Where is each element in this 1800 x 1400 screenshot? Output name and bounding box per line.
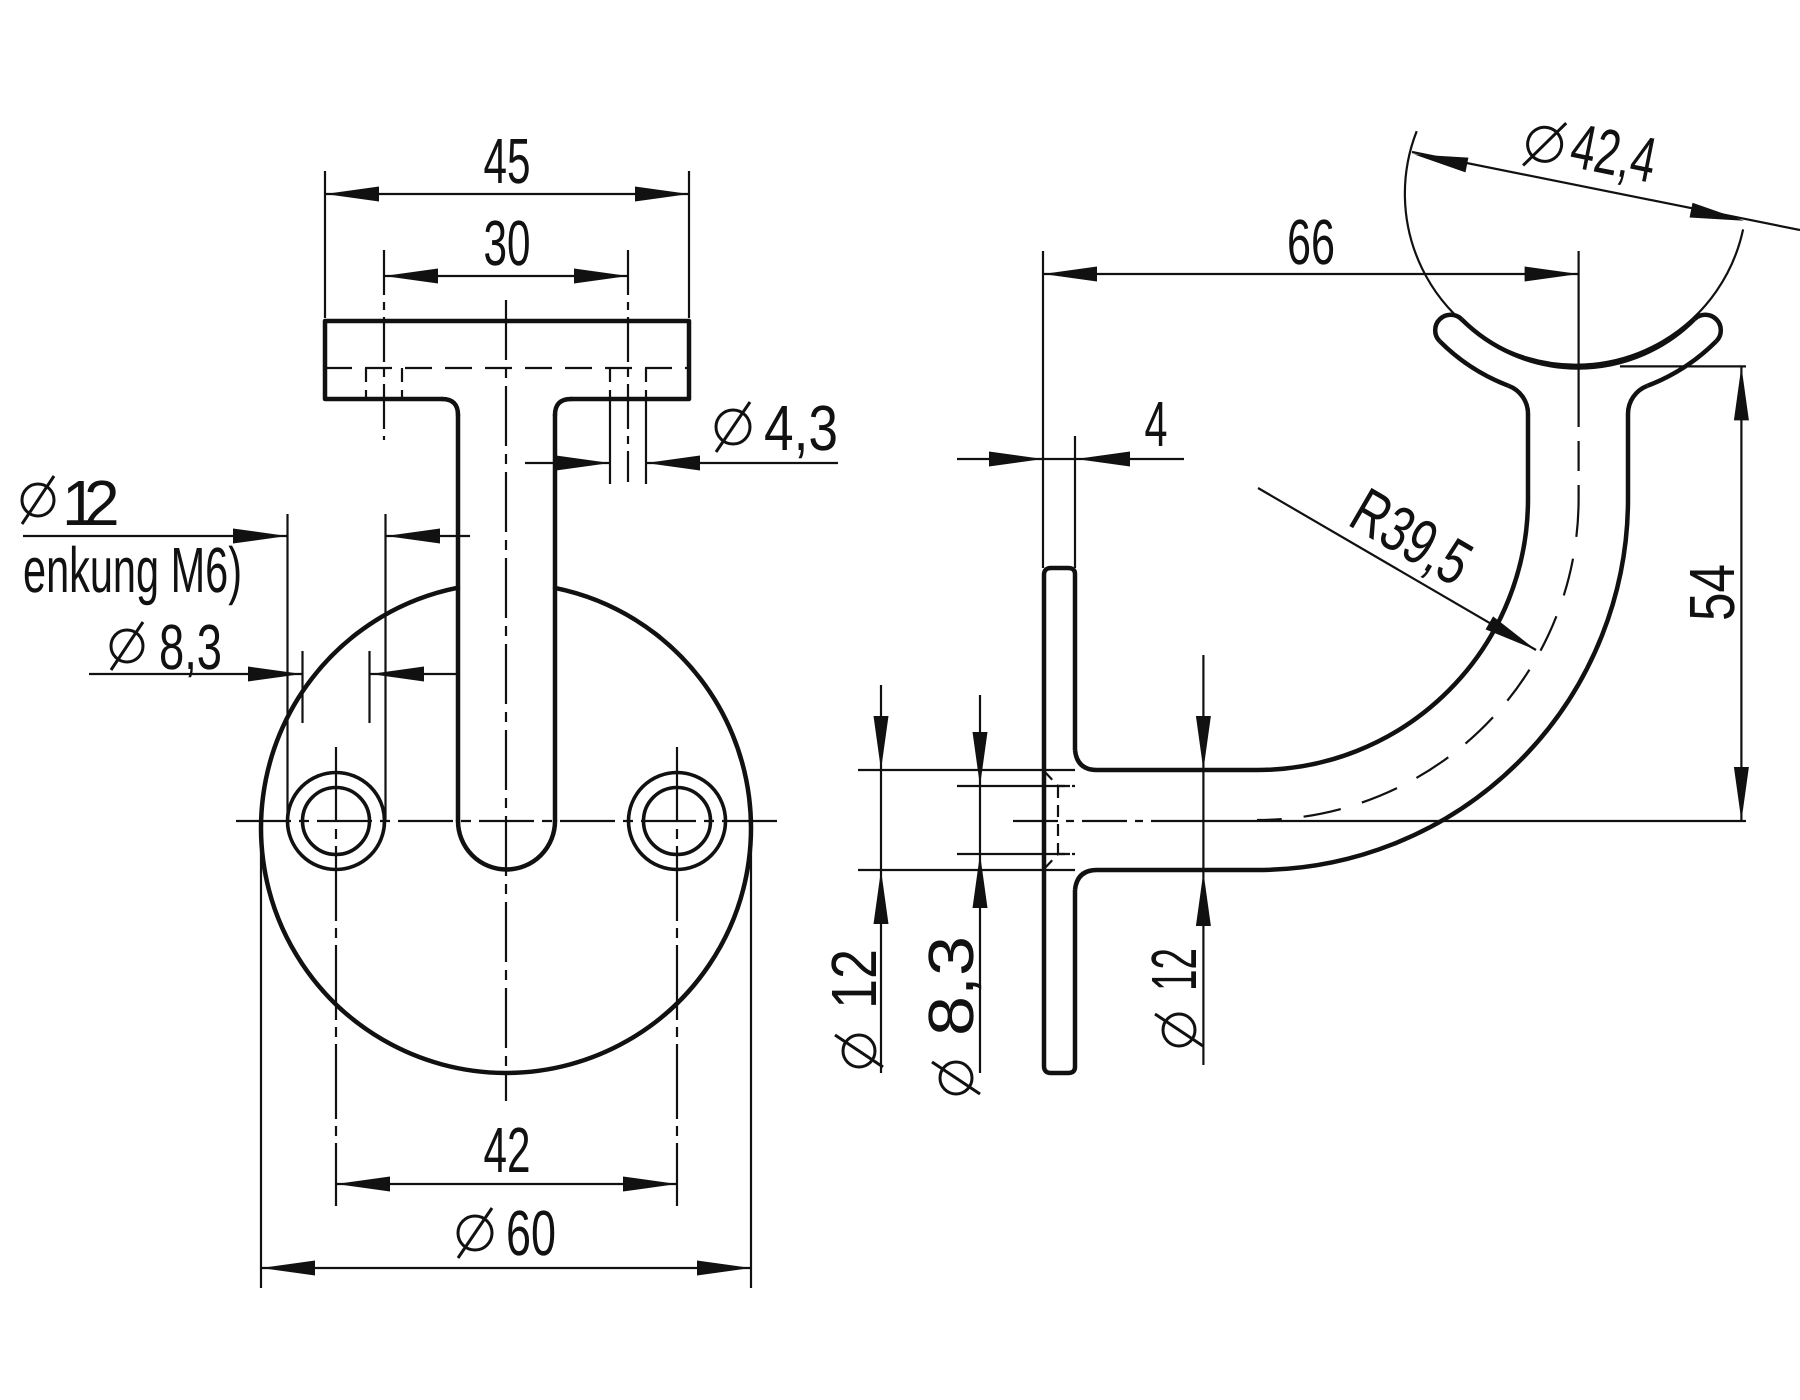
svg-text:12: 12	[1138, 948, 1210, 991]
dimension 30	[384, 275, 628, 277]
centerline hole right top	[627, 250, 629, 482]
svg-text:42: 42	[484, 1114, 531, 1186]
label R39,5 rotated	[1339, 474, 1484, 600]
wall plate side	[1044, 568, 1075, 1073]
svg-text:30: 30	[484, 207, 531, 279]
svg-text:2: 2	[84, 467, 120, 539]
bracket arm and bend	[1075, 386, 1647, 890]
label Ø60	[458, 1197, 556, 1269]
svg-text:8,3: 8,3	[159, 611, 222, 683]
label Ø4,3	[716, 392, 838, 464]
left hole outer Ø12	[288, 773, 385, 870]
svg-text:8,3: 8,3	[915, 936, 987, 1036]
centerlines side view	[1013, 397, 1579, 821]
svg-text:12: 12	[818, 949, 890, 1009]
dimension Ø4,3	[525, 399, 838, 484]
right hole outer Ø12	[629, 773, 726, 870]
label Ø12	[22, 467, 120, 539]
right hole inner Ø8.3	[644, 788, 711, 855]
svg-text:54: 54	[1676, 564, 1748, 621]
svg-text:enkung M6): enkung M6)	[23, 534, 242, 606]
dimension Ø12 plate countersink	[858, 685, 1075, 1073]
dimension Ø8,3 plate hole	[957, 695, 1075, 1073]
dimension Ø60	[261, 824, 751, 1288]
label Ø8,3 plate rotated	[915, 936, 987, 1094]
hidden hole edges left	[366, 368, 402, 399]
svg-text:4,3: 4,3	[764, 392, 838, 464]
centerline right hole vertical	[676, 747, 678, 1206]
dimension 45	[325, 171, 689, 318]
tube circle Ø42,4 (thin arc)	[1405, 131, 1743, 365]
cup saddle	[1435, 315, 1721, 386]
dimension R39,5 leader	[1258, 488, 1536, 650]
hidden countersink in plate	[1044, 771, 1075, 869]
svg-text:60: 60	[506, 1197, 556, 1269]
left hole inner Ø8.3	[303, 788, 370, 855]
dimension Ø8,3	[89, 651, 460, 723]
hidden hole edges right	[610, 368, 646, 399]
dimension 66	[1043, 251, 1579, 568]
disc Ø60	[261, 588, 751, 1073]
vertical centerline	[505, 300, 507, 1101]
dimension 4	[957, 436, 1184, 568]
top plate outline	[325, 321, 689, 415]
hidden line plate holes depth	[325, 367, 689, 369]
label Ø42,4 rotated	[1522, 101, 1663, 197]
svg-text:4: 4	[1145, 388, 1168, 460]
label Ø8,3	[111, 611, 222, 683]
centerline hole left top	[383, 250, 385, 440]
dimension 54	[1160, 366, 1746, 821]
stem U bottom	[458, 821, 555, 870]
dimension 42	[336, 1183, 677, 1185]
label Ø12 plate rotated	[818, 949, 890, 1067]
svg-text:45: 45	[484, 125, 531, 197]
label 54 rotated	[1676, 564, 1748, 621]
svg-text:66: 66	[1287, 206, 1335, 278]
dimension Ø12 (Senkung M6)	[23, 514, 470, 820]
horizontal centerline	[236, 820, 779, 822]
centerline left hole vertical	[335, 747, 337, 1206]
dimension Ø42,4	[1412, 152, 1800, 230]
stem	[458, 415, 555, 821]
label Ø12 arm rotated	[1138, 948, 1210, 1046]
dimension Ø12 arm	[1202, 655, 1204, 1065]
